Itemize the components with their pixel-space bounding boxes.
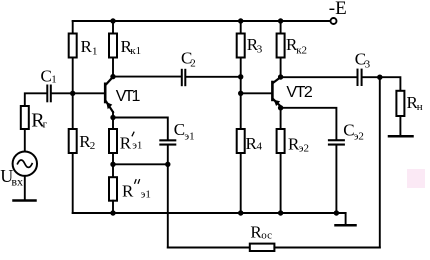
resistor R2	[69, 129, 77, 153]
wire: feedback riser to output node	[379, 77, 381, 247]
resistor R3	[237, 34, 245, 58]
svg-text:э1: э1	[141, 188, 151, 200]
wire: rail down to Rk2	[280, 21, 282, 34]
wire: rail end down to ground	[345, 213, 347, 224]
wire: base node to R2	[72, 93, 74, 129]
wire: VT2 collector to C3	[281, 76, 357, 78]
wire: source to ground	[24, 176, 26, 200]
junction VT1 collector	[110, 74, 115, 79]
resistor Re1a	[109, 129, 117, 153]
svg-text:э2: э2	[299, 142, 309, 154]
resistor Rk1	[109, 34, 117, 58]
resistor R4	[237, 129, 245, 153]
svg-text:к2: к2	[296, 44, 307, 56]
wire: VT1 emitter to Re1a	[112, 118, 114, 130]
wire: R3 to tap node	[240, 58, 242, 77]
svg-text:вх: вх	[11, 175, 23, 189]
junction feedback node	[165, 162, 170, 167]
svg-text:3: 3	[365, 58, 371, 70]
capacitor Ce2	[328, 139, 345, 145]
svg-text:1: 1	[51, 74, 57, 86]
wire: collector to C2	[113, 76, 181, 78]
wire: divider node to Re1b	[112, 164, 114, 177]
svg-text:VT2: VT2	[286, 84, 312, 101]
wire: Roc to output riser	[274, 247, 379, 249]
transistor VT1	[104, 77, 113, 118]
svg-text:г: г	[43, 119, 48, 131]
junction base node VT2	[238, 91, 243, 96]
svg-text:R: R	[120, 133, 132, 152]
capacitor C1	[46, 85, 52, 103]
junction base node VT1	[70, 91, 75, 96]
svg-text:2: 2	[190, 57, 196, 69]
wire: Rg top corner to C1	[25, 93, 47, 106]
ground bar under Uvx	[14, 199, 36, 202]
wire: Rk1 to VT1 collector	[112, 58, 114, 77]
wire: Rn to ground	[399, 116, 401, 135]
wire: feedback bottom run to Roc	[168, 247, 250, 249]
junction C2-R3 tap	[238, 74, 243, 79]
wire: Ce1 to feedback node	[167, 146, 169, 165]
junction VT2 collector	[278, 74, 283, 79]
-E terminal	[331, 18, 337, 24]
junction output node	[377, 75, 382, 80]
svg-text:R: R	[81, 37, 93, 56]
wire: feedback node down	[167, 164, 169, 247]
junction Re1b rail	[110, 210, 115, 215]
resistor R1	[69, 34, 77, 58]
wire: Ce2 to bottom rail	[335, 146, 337, 213]
svg-text:н: н	[417, 101, 423, 113]
svg-text:C: C	[41, 67, 52, 86]
capacitor Ce1	[159, 139, 176, 145]
resistor Rg	[21, 106, 29, 129]
capacitor C3	[357, 69, 363, 86]
resistor Rk2	[277, 34, 285, 58]
wire: base wire to VT2	[241, 92, 272, 94]
junction rail Rk2	[278, 18, 283, 23]
wire: Rg to source	[24, 129, 26, 152]
svg-text:VT1: VT1	[116, 88, 141, 105]
wire: rail down to R3	[240, 21, 242, 34]
junction rail R3	[238, 18, 243, 23]
svg-text:э1: э1	[184, 130, 194, 142]
svg-text:R: R	[122, 182, 134, 201]
svg-text:ос: ос	[261, 230, 272, 242]
svg-text:2: 2	[90, 140, 96, 152]
wire: Rk2 to VT2 collector	[280, 58, 282, 78]
junction divider node	[110, 162, 115, 167]
faint scan artifact	[407, 169, 425, 188]
wire: bottom common rail	[73, 212, 346, 214]
wire: top supply rail	[73, 20, 331, 22]
junction R4 rail	[238, 210, 243, 215]
svg-text:3: 3	[257, 43, 263, 55]
wire: C1 to base node	[52, 92, 73, 94]
svg-text:э1: э1	[132, 140, 142, 152]
svg-text:-E: -E	[329, 0, 347, 19]
ground bar at rail end	[336, 224, 356, 227]
wire: Re1a to divider node	[112, 153, 114, 164]
wire: Re2 to bottom rail	[280, 153, 282, 213]
resistor Re1b	[109, 177, 117, 201]
wire: base wire to VT1	[73, 92, 104, 94]
wire: VT2 emitter to Ce2	[281, 108, 337, 139]
wire: rail down to R1	[72, 21, 74, 34]
wire: R4 to bottom rail	[240, 153, 242, 213]
transistor VT2	[271, 77, 281, 108]
wire: R2 to bottom rail	[72, 153, 74, 213]
svg-text:к1: к1	[130, 45, 141, 57]
svg-text:1: 1	[92, 45, 98, 57]
source Uvx	[13, 152, 37, 176]
wire: C2 to R3 tap	[186, 76, 240, 78]
junction Re2 rail	[278, 210, 283, 215]
wire: base node to R4	[240, 93, 242, 129]
ground bar under Rn	[389, 135, 413, 138]
capacitor C2	[181, 69, 187, 86]
svg-text:4: 4	[257, 141, 263, 153]
wire: tap to base node VT2	[240, 77, 242, 94]
resistor Roc	[250, 244, 275, 251]
wire: Re1b to bottom rail	[112, 201, 114, 213]
wire: C3 to output node	[363, 76, 380, 78]
junction rail Rk1	[110, 18, 115, 23]
junction Ce2 rail	[334, 210, 339, 215]
wire: VT1 emitter to Ce1	[113, 118, 168, 140]
resistor Re2	[277, 129, 285, 153]
wire: VT2 emitter to Re2	[280, 108, 282, 129]
junction VT2 emitter	[278, 105, 283, 110]
wire: R1 to base node	[72, 58, 74, 94]
junction VT1 emitter	[110, 115, 115, 120]
resistor Rn	[396, 91, 404, 116]
wire: output node to Rn	[380, 77, 401, 91]
wire: rail down to Rk1	[112, 21, 114, 34]
svg-text:э2: э2	[354, 130, 364, 142]
wire: divider node to feedback column	[113, 163, 168, 165]
